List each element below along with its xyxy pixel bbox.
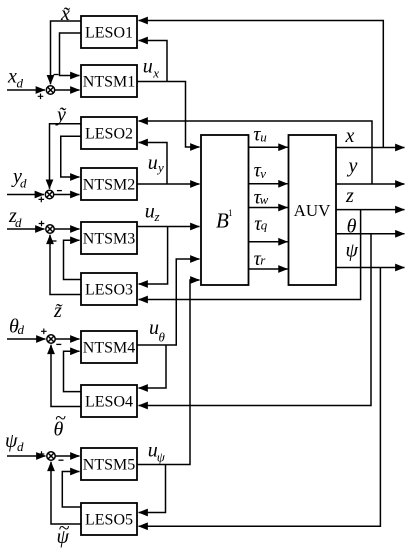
svg-text:NTSM2: NTSM2 bbox=[83, 177, 135, 194]
svg-text:LESO4: LESO4 bbox=[85, 394, 133, 411]
svg-text:d: d bbox=[15, 215, 22, 230]
svg-text:LESO5: LESO5 bbox=[85, 512, 133, 529]
svg-text:θ: θ bbox=[347, 216, 357, 238]
svg-text:LESO2: LESO2 bbox=[85, 126, 133, 143]
svg-text:~: ~ bbox=[55, 408, 66, 430]
svg-text:z: z bbox=[345, 185, 354, 207]
svg-text:NTSM5: NTSM5 bbox=[83, 457, 135, 474]
svg-text:AUV: AUV bbox=[294, 201, 332, 220]
svg-text:u: u bbox=[148, 152, 158, 174]
svg-text:z: z bbox=[154, 209, 160, 224]
svg-text:u: u bbox=[143, 56, 153, 78]
svg-text:ψ: ψ bbox=[346, 239, 359, 261]
svg-text:r: r bbox=[260, 253, 266, 268]
svg-text:u: u bbox=[149, 317, 159, 339]
svg-text:θ: θ bbox=[159, 330, 166, 345]
svg-text:v: v bbox=[260, 166, 266, 181]
svg-text:w: w bbox=[260, 192, 269, 207]
svg-text:ψ: ψ bbox=[157, 450, 166, 465]
svg-text:NTSM3: NTSM3 bbox=[83, 231, 135, 248]
svg-text:LESO3: LESO3 bbox=[85, 282, 133, 299]
svg-text:y: y bbox=[347, 155, 358, 177]
svg-text:x: x bbox=[152, 65, 159, 80]
svg-text:ỹ: ỹ bbox=[55, 104, 67, 126]
svg-text:NTSM1: NTSM1 bbox=[83, 74, 135, 91]
svg-text:1: 1 bbox=[228, 208, 233, 218]
svg-text:q: q bbox=[261, 217, 268, 232]
svg-text:NTSM4: NTSM4 bbox=[83, 340, 135, 357]
svg-text:LESO1: LESO1 bbox=[85, 25, 133, 42]
svg-text:y: y bbox=[156, 160, 164, 175]
svg-text:x: x bbox=[7, 66, 17, 88]
svg-text:d: d bbox=[17, 76, 24, 91]
svg-text:d: d bbox=[18, 322, 25, 337]
svg-text:x: x bbox=[345, 125, 355, 147]
svg-text:d: d bbox=[17, 439, 24, 454]
svg-text:u: u bbox=[145, 201, 155, 223]
svg-text:d: d bbox=[20, 176, 27, 191]
svg-text:x̃: x̃ bbox=[60, 3, 70, 25]
svg-text:u: u bbox=[260, 130, 267, 145]
svg-text:z̃: z̃ bbox=[53, 300, 63, 322]
svg-text:~: ~ bbox=[59, 518, 70, 540]
